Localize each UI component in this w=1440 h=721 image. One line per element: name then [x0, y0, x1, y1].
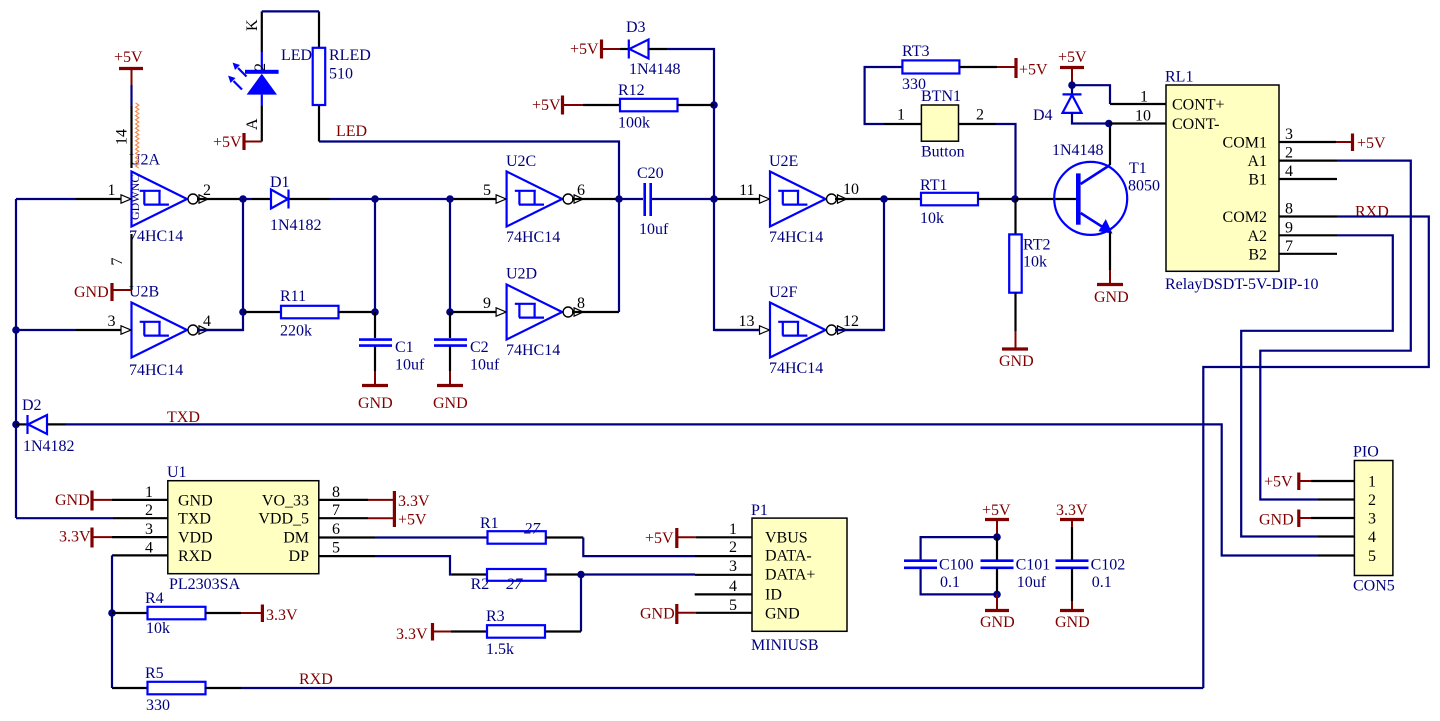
wire A1 net to PIO pin2	[1260, 161, 1411, 500]
resistor RT2 10k	[1009, 199, 1050, 331]
svg-text:U2D: U2D	[506, 266, 537, 283]
svg-text:8: 8	[577, 295, 585, 312]
svg-text:3: 3	[729, 558, 737, 575]
svg-text:3.3V: 3.3V	[59, 529, 91, 546]
connector P1 MINIUSB	[729, 502, 847, 654]
svg-text:GND: GND	[358, 395, 393, 412]
pin 1 PIO wire	[1311, 480, 1354, 482]
wire +5V to pin14	[130, 85, 132, 106]
svg-text:VDD_5: VDD_5	[258, 511, 309, 528]
svg-text:100k: 100k	[618, 115, 650, 132]
pin 5 U1 wire (DP)	[319, 556, 487, 574]
node U2B input junction	[12, 326, 20, 334]
wire CONT- node to relay pin10	[1109, 104, 1166, 124]
svg-text:+5V: +5V	[114, 49, 143, 66]
power +5V (D4)	[1058, 49, 1087, 85]
svg-text:2: 2	[1368, 492, 1376, 509]
svg-text:C2: C2	[470, 339, 489, 356]
node RT1 output junction	[1011, 195, 1019, 203]
svg-text:U2F: U2F	[769, 284, 798, 301]
op-amp U2F (74HC14 schmitt inverter)	[760, 284, 847, 377]
op-amp U2D (74HC14 schmitt inverter)	[496, 266, 583, 360]
svg-text:10uf: 10uf	[395, 357, 425, 374]
svg-text:27: 27	[506, 576, 523, 593]
svg-text:R3: R3	[486, 608, 505, 625]
node U2E output junction	[880, 195, 888, 203]
svg-text:GND: GND	[178, 492, 213, 509]
svg-text:1N4148: 1N4148	[1052, 142, 1104, 159]
power GND (C2)	[433, 371, 468, 412]
pin 10 of U2E	[835, 181, 884, 199]
svg-text:1: 1	[1368, 474, 1376, 491]
power 3.3V (R3)	[396, 623, 451, 643]
connector CON5 PIO	[1353, 444, 1395, 595]
svg-text:74HC14: 74HC14	[129, 228, 183, 245]
svg-text:14: 14	[114, 129, 131, 145]
power +5V (P1 VBUS)	[645, 528, 696, 548]
capacitor C1 10uf	[359, 312, 425, 374]
diode D3 1N4148	[620, 19, 681, 78]
svg-text:74HC14: 74HC14	[506, 229, 560, 246]
power 3.3V / +5V (U1 pins 8,7)	[319, 491, 430, 529]
capacitor C100 0.1	[904, 557, 974, 592]
wire RT1 node to T1 base	[1015, 198, 1076, 200]
pin 3 of U2B	[76, 313, 121, 330]
svg-text:1N4182: 1N4182	[23, 438, 75, 455]
svg-text:GND: GND	[55, 492, 90, 509]
svg-text:DM: DM	[283, 530, 309, 547]
resistor R3 1.5k	[451, 608, 581, 658]
svg-text:1N4182: 1N4182	[270, 217, 322, 234]
svg-text:5: 5	[729, 597, 737, 614]
pin 12 of U2F	[835, 313, 884, 330]
svg-text:GND: GND	[74, 284, 109, 301]
svg-text:B2: B2	[1248, 246, 1267, 263]
node R11 left junction	[239, 308, 247, 316]
svg-text:74HC14: 74HC14	[769, 229, 823, 246]
svg-text:U1: U1	[167, 464, 187, 481]
op-amp U2E (74HC14 schmitt inverter)	[760, 153, 847, 246]
svg-text:GND: GND	[433, 395, 468, 412]
power 3.3V (R4)	[241, 605, 298, 625]
svg-text:1: 1	[729, 521, 737, 538]
svg-text:VO_33: VO_33	[262, 492, 309, 509]
svg-text:GND: GND	[765, 606, 800, 623]
node R4 junction	[108, 609, 116, 617]
pin 3 COM1 wire	[1279, 141, 1336, 143]
resistor R4 10k	[112, 590, 241, 637]
svg-text:R1: R1	[480, 515, 499, 532]
svg-text:3: 3	[1368, 511, 1376, 528]
svg-text:GND: GND	[640, 606, 675, 623]
diode D4 1N4148	[1033, 85, 1109, 124]
pin 8 COM2 wire	[1279, 215, 1337, 217]
svg-text:2: 2	[252, 63, 269, 71]
svg-text:10: 10	[843, 181, 859, 198]
svg-text:D2: D2	[22, 397, 42, 414]
svg-text:2: 2	[976, 107, 984, 124]
pin 6 U1 wire (DM)	[319, 536, 488, 538]
svg-text:GND: GND	[1094, 289, 1129, 306]
svg-text:13: 13	[739, 313, 755, 330]
svg-text:74HC14: 74HC14	[506, 342, 560, 359]
svg-text:Button: Button	[921, 144, 965, 161]
svg-text:R4: R4	[145, 590, 164, 607]
svg-text:74HC14: 74HC14	[129, 362, 183, 379]
svg-text:MINIUSB: MINIUSB	[751, 637, 819, 654]
svg-text:R2: R2	[471, 576, 490, 593]
node A junction U2A.out/D1	[239, 195, 247, 203]
wire R3 to R2 node	[580, 575, 582, 632]
pin 5 PIO wire	[1318, 554, 1354, 556]
svg-text:10uf: 10uf	[1017, 574, 1047, 591]
pin 4 PIO wire	[1318, 535, 1354, 537]
node D2 junction	[12, 421, 20, 429]
power +5V (D3)	[570, 40, 620, 59]
power 3.3V (C102)	[1056, 502, 1088, 527]
node U2C output junction	[615, 195, 623, 203]
svg-text:3: 3	[1285, 126, 1293, 143]
node R11 right junction	[371, 308, 379, 316]
svg-text:10uf: 10uf	[470, 357, 500, 374]
pin 3 PIO wire	[1311, 517, 1354, 519]
pin 4 of U2B	[197, 313, 243, 330]
svg-text:11: 11	[739, 182, 754, 199]
op-amp U2B (74HC14 schmitt inverter)	[121, 284, 208, 380]
resistor RT1 10k	[920, 177, 1015, 227]
svg-text:RLED: RLED	[329, 47, 371, 64]
svg-text:6: 6	[332, 521, 340, 538]
svg-text:1N4148: 1N4148	[629, 61, 681, 78]
pin 7 B2 wire	[1279, 253, 1337, 255]
pin 4 B1 wire	[1279, 178, 1337, 180]
svg-text:7: 7	[1285, 238, 1293, 255]
svg-text:+5V: +5V	[1058, 49, 1087, 66]
svg-text:C100: C100	[939, 557, 974, 574]
svg-text:2: 2	[203, 182, 211, 199]
svg-text:R12: R12	[618, 82, 645, 99]
svg-text:+5V: +5V	[1019, 62, 1048, 79]
wire R2 node to P1 DATA+	[581, 573, 695, 575]
power +5V (R12)	[532, 96, 583, 115]
svg-text:DATA+: DATA+	[765, 566, 815, 583]
node U2E input junction	[710, 195, 718, 203]
IC U1 PL2303SA	[145, 464, 340, 593]
svg-text:DP: DP	[289, 548, 310, 565]
power GND (U2B pin7)	[74, 283, 132, 301]
wire R1 to P1 DATA-	[583, 538, 695, 557]
wire node to U2E input	[714, 198, 715, 200]
node junction C2 column row1	[446, 195, 454, 203]
power +5V (COM1)	[1336, 134, 1386, 153]
pin 1 U1 wire	[112, 499, 168, 501]
wire RXD net right loop	[1203, 217, 1429, 689]
power GND (P1 pin5)	[640, 604, 696, 624]
resistor R2 27	[471, 569, 581, 593]
power +5V (top-left, pin14)	[114, 49, 143, 85]
svg-text:B1: B1	[1248, 172, 1267, 189]
node C2 junction	[446, 308, 454, 316]
svg-text:RXD: RXD	[299, 671, 333, 688]
pin 1 of U2A	[76, 182, 121, 199]
svg-text:+5V: +5V	[645, 530, 674, 547]
svg-text:A1: A1	[1247, 153, 1267, 170]
wire C100 loop	[921, 537, 997, 594]
wire RXD bottom	[241, 687, 1203, 689]
pin 2 PIO wire	[1318, 498, 1354, 500]
svg-text:2: 2	[145, 502, 153, 519]
power GND (T1 emitter)	[1094, 270, 1129, 306]
power GND (PIO pin3)	[1259, 510, 1311, 529]
svg-text:8: 8	[332, 484, 340, 501]
ERC marker zigzag	[136, 103, 139, 168]
wire A2 net to PIO pin4	[1241, 235, 1393, 536]
svg-text:RT2: RT2	[1023, 237, 1050, 254]
svg-text:RT3: RT3	[902, 43, 929, 60]
svg-text:RL1: RL1	[1165, 69, 1193, 86]
node junction C1 column row1	[371, 195, 379, 203]
svg-text:10k: 10k	[146, 620, 170, 637]
svg-text:A2: A2	[1247, 228, 1267, 245]
svg-text:3.3V: 3.3V	[398, 493, 430, 510]
capacitor C101 10uf	[981, 537, 1051, 594]
pin 4 P1 wire (ID stub)	[695, 593, 752, 595]
svg-text:220k: 220k	[280, 323, 312, 340]
svg-text:3.3V: 3.3V	[1056, 502, 1088, 519]
wire left input bus	[16, 199, 76, 518]
pin 2 of U2A	[197, 182, 243, 199]
svg-text:10uf: 10uf	[639, 221, 669, 238]
power +5V (LED anode)	[213, 133, 262, 151]
svg-text:27: 27	[524, 521, 541, 538]
svg-text:VBUS: VBUS	[765, 529, 808, 546]
svg-text:U2B: U2B	[129, 284, 159, 301]
svg-text:C101: C101	[1016, 557, 1051, 574]
svg-text:U2C: U2C	[506, 153, 536, 170]
wire +5V node to relay pin1	[1072, 85, 1110, 104]
power GND (C1)	[358, 371, 393, 412]
wire TXD net	[66, 424, 1318, 555]
svg-text:3.3V: 3.3V	[266, 607, 298, 624]
pin 5 P1 wire	[696, 612, 752, 614]
svg-text:4: 4	[145, 539, 153, 556]
svg-text:1: 1	[897, 107, 905, 124]
svg-text:R5: R5	[145, 665, 164, 682]
svg-text:PIO: PIO	[1353, 444, 1379, 461]
svg-text:+5V: +5V	[532, 97, 561, 114]
transistor T1 8050	[1054, 124, 1160, 271]
svg-text:4: 4	[203, 313, 211, 330]
svg-text:CONT+: CONT+	[1172, 97, 1225, 114]
resistor R11 220k	[243, 288, 375, 340]
power GND (RT2)	[999, 331, 1034, 370]
svg-text:8050: 8050	[1128, 178, 1160, 195]
svg-text:+5V: +5V	[1357, 135, 1386, 152]
svg-text:9: 9	[1285, 219, 1293, 236]
svg-text:TXD: TXD	[178, 511, 211, 528]
node D4 anode +5V junction	[1068, 81, 1076, 89]
wire LED net to U2C output node	[319, 142, 619, 313]
svg-text:LED: LED	[281, 47, 312, 64]
wire D1 cathode to U2C input	[330, 198, 451, 200]
svg-text:7: 7	[109, 258, 126, 266]
svg-text:1: 1	[1140, 89, 1148, 106]
pin 4 U1 wire (RXD)	[112, 555, 168, 688]
op-amp U2A (74HC14 schmitt inverter)	[121, 152, 208, 246]
node R2/R3 junction	[577, 571, 585, 579]
power GND (C101)	[980, 594, 1015, 631]
svg-text:3: 3	[108, 313, 116, 330]
svg-text:510: 510	[329, 66, 353, 83]
pin 14 of U2A	[114, 106, 132, 168]
svg-text:DATA-: DATA-	[765, 548, 812, 565]
wire C2 column vertical	[449, 199, 451, 312]
svg-text:C20: C20	[637, 165, 664, 182]
svg-text:C1: C1	[395, 339, 414, 356]
svg-text:10k: 10k	[1023, 254, 1047, 271]
resistor R1 27	[480, 515, 583, 544]
svg-text:GND: GND	[999, 353, 1034, 370]
svg-text:VDD: VDD	[178, 530, 213, 547]
svg-text:9: 9	[483, 295, 491, 312]
power 3.3V (U1 pin3)	[59, 528, 112, 548]
svg-text:4: 4	[1285, 163, 1293, 180]
svg-text:RXD: RXD	[1355, 204, 1389, 221]
wire C1 column vertical	[374, 199, 376, 312]
svg-text:K: K	[244, 19, 261, 31]
svg-text:T1: T1	[1129, 160, 1147, 177]
node C101 top junction	[993, 533, 1001, 541]
svg-text:D1: D1	[270, 174, 290, 191]
svg-text:BTN1: BTN1	[921, 88, 961, 105]
svg-text:5: 5	[332, 539, 340, 556]
svg-text:+5V: +5V	[213, 134, 242, 151]
diode D1 1N4182	[252, 174, 330, 234]
switch BTN1 Button	[897, 88, 984, 161]
node R12/D3 junction	[710, 101, 718, 109]
svg-text:0.1: 0.1	[940, 574, 960, 591]
svg-text:330: 330	[146, 697, 170, 714]
svg-text:COM1: COM1	[1223, 135, 1267, 152]
svg-text:A: A	[244, 118, 261, 130]
wire LED top (K to RLED)	[262, 10, 319, 12]
power GND (U1 pin1)	[55, 491, 112, 511]
pin 5 of U2C	[451, 182, 496, 199]
capacitor C2 10uf	[434, 312, 500, 374]
svg-text:RXD: RXD	[178, 548, 212, 565]
power +5V (C101)	[982, 502, 1011, 537]
op-amp U2C (74HC14 schmitt inverter)	[496, 153, 583, 246]
svg-text:7: 7	[332, 502, 340, 519]
pin 9 of U2D	[451, 295, 496, 312]
wire D3 to R12 node	[667, 49, 760, 330]
svg-text:1: 1	[145, 484, 153, 501]
pin 13 of U2F	[715, 313, 760, 330]
svg-text:D4: D4	[1033, 107, 1053, 124]
svg-text:3.3V: 3.3V	[396, 626, 428, 643]
svg-text:6: 6	[577, 182, 585, 199]
svg-text:GND: GND	[980, 614, 1015, 631]
svg-text:CONT-: CONT-	[1172, 116, 1219, 133]
svg-text:+5V: +5V	[982, 502, 1011, 519]
svg-text:10k: 10k	[920, 210, 944, 227]
capacitor C102 0.1	[1056, 527, 1126, 601]
svg-text:GDWNC: GDWNC	[128, 175, 142, 220]
svg-text:COM2: COM2	[1223, 209, 1267, 226]
svg-text:PL2303SA: PL2303SA	[169, 576, 241, 593]
pin 6 of U2C	[572, 182, 619, 199]
relay RL1 RelayDSDT-5V-DIP-10	[1135, 69, 1318, 294]
svg-text:8: 8	[1285, 201, 1293, 218]
pin 2 U1 wire (TXD)	[16, 517, 168, 519]
svg-text:2: 2	[729, 539, 737, 556]
node relay CONT- junction	[1105, 120, 1113, 128]
svg-text:R11: R11	[280, 288, 306, 305]
resistor R5 330	[112, 665, 241, 714]
pin 7 of U2B	[109, 234, 132, 290]
svg-text:RT1: RT1	[920, 177, 947, 194]
svg-text:74HC14: 74HC14	[769, 360, 823, 377]
svg-text:U2A: U2A	[129, 152, 161, 169]
pin 3 P1 wire	[695, 574, 752, 576]
pin 3 U1 wire	[112, 536, 168, 538]
power GND (C102)	[1055, 601, 1090, 631]
svg-text:12: 12	[843, 313, 859, 330]
pin 11 of U2E	[715, 182, 760, 199]
svg-text:4: 4	[729, 578, 737, 595]
svg-text:RelayDSDT-5V-DIP-10: RelayDSDT-5V-DIP-10	[1165, 276, 1318, 293]
node C101 bottom junction	[993, 591, 1001, 599]
svg-text:GND: GND	[1259, 512, 1294, 529]
pin 9 A2 wire	[1279, 234, 1337, 236]
wire U2E out to RT1	[884, 198, 921, 200]
pin 2 A1 wire	[1279, 160, 1337, 162]
svg-text:1: 1	[108, 182, 116, 199]
svg-text:5: 5	[483, 182, 491, 199]
pin 1 P1 wire	[696, 536, 752, 538]
svg-text:+5V: +5V	[398, 512, 427, 529]
capacitor C20 10uf	[619, 165, 714, 238]
LED D (indicator diode)	[228, 11, 312, 141]
svg-text:10: 10	[1135, 108, 1151, 125]
svg-text:D3: D3	[626, 19, 646, 36]
diode D2 1N4182	[16, 397, 75, 455]
resistor R12 100k	[583, 82, 714, 132]
svg-text:CON5: CON5	[1353, 578, 1395, 595]
power +5V (PIO pin1)	[1264, 473, 1311, 491]
svg-text:2: 2	[1285, 145, 1293, 162]
svg-text:U2E: U2E	[769, 153, 798, 170]
svg-text:C102: C102	[1091, 557, 1126, 574]
power +5V (RT3)	[997, 58, 1048, 79]
pin 8 of U2D	[572, 295, 619, 312]
svg-text:+5V: +5V	[570, 41, 599, 58]
svg-text:5: 5	[1368, 548, 1376, 565]
svg-text:GND: GND	[1055, 614, 1090, 631]
svg-text:+5V: +5V	[1264, 474, 1293, 491]
svg-text:0.1: 0.1	[1092, 574, 1112, 591]
svg-text:4: 4	[1368, 529, 1376, 546]
svg-text:ID: ID	[765, 587, 782, 604]
resistor RLED 510	[313, 11, 371, 141]
svg-text:3: 3	[145, 521, 153, 538]
svg-text:LED: LED	[336, 123, 367, 140]
svg-text:P1: P1	[751, 502, 768, 519]
wire U2A out node	[197, 199, 252, 330]
wire BTN1 pin2 to RT1 node	[959, 124, 1016, 199]
svg-text:1.5k: 1.5k	[486, 641, 514, 658]
pin 2 P1 wire	[695, 555, 752, 557]
